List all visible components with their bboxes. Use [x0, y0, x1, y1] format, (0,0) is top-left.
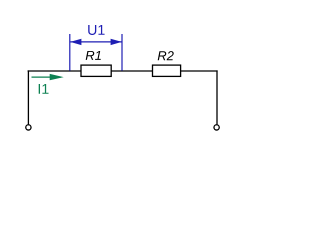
- label I1: [39, 84, 49, 94]
- resistor R1 (body): [81, 65, 111, 76]
- wire: right horizontal segment (R2 to right corner): [180, 70, 218, 72]
- label U1: [88, 25, 104, 35]
- wire: left vertical segment: [27, 70, 29, 124]
- terminal: right open node: [214, 125, 219, 130]
- resistor R2 (body): [153, 65, 181, 76]
- voltage arrow U1: right extension line: [121, 34, 123, 71]
- current arrow I1: shaft: [32, 76, 62, 78]
- label R2: [158, 51, 174, 60]
- label R1: [86, 51, 101, 60]
- voltage arrow U1: left extension line: [69, 34, 71, 71]
- voltage arrow U1: shaft: [70, 41, 121, 43]
- wire: middle horizontal segment (R1 to R2): [111, 70, 153, 72]
- voltage arrow U1: right arrowhead: [111, 39, 122, 45]
- wire: left horizontal segment (input node to R1): [28, 70, 82, 72]
- terminal: left open node: [26, 125, 31, 130]
- wire: right vertical segment: [216, 70, 218, 124]
- current arrow I1: arrowhead: [50, 74, 64, 80]
- voltage arrow U1: left arrowhead: [70, 39, 81, 45]
